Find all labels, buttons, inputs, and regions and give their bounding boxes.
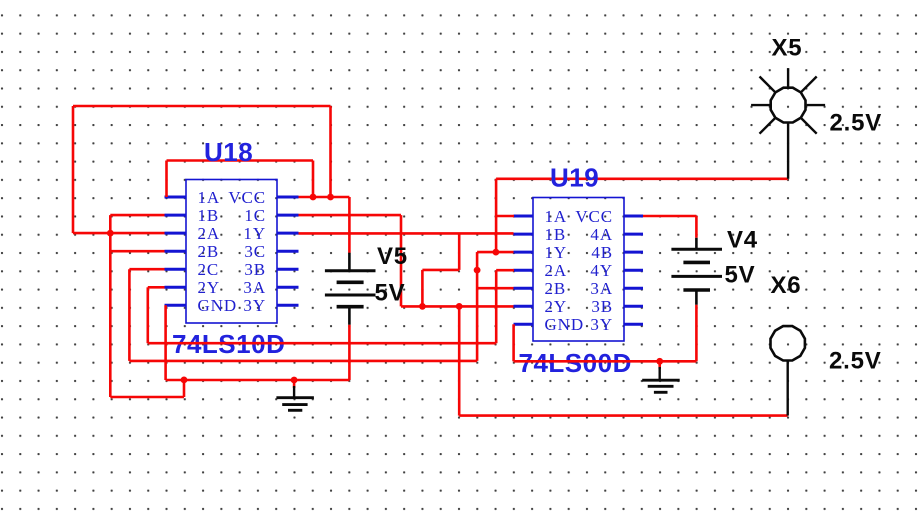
junction node 10 (656, 358, 663, 365)
U19 right pin stub row 6 (624, 305, 643, 308)
U19 right pin stub row 3 (624, 251, 643, 254)
op-amp U18 body (74LS10D IC box) (186, 180, 277, 324)
junction node 9 (291, 377, 298, 384)
junction node 2 (327, 194, 334, 201)
wire net y=361 U18 2C to U19 1Y (129, 360, 477, 363)
battery V4 top terminal (695, 238, 698, 249)
svg-text:2Y: 2Y (198, 278, 221, 297)
wire U19 pin 1A (496, 215, 514, 218)
wire U19 pin 2A (496, 269, 514, 272)
svg-text:1C: 1C (244, 206, 266, 225)
U19 left pin stub row 6 (514, 305, 534, 308)
wire 1C net vertical x=401 (400, 215, 403, 306)
wire drop to VCC node B (329, 106, 332, 197)
U18 right pin stub row 5 (277, 268, 299, 271)
battery V4 long plate 2 (671, 275, 722, 278)
wire ground 1 drop (293, 380, 296, 388)
U18 left pin stub row 2 (165, 214, 187, 217)
wire into U18 pin 2B (110, 250, 164, 253)
battery V5 long plate 2 (325, 294, 376, 297)
wire top long horizontal (73, 105, 331, 108)
wire net y=343 U18 2Y to U19 2A (148, 342, 496, 345)
wire jog vertical x=422 (421, 270, 424, 307)
lamp X6 lead wire (787, 361, 789, 416)
battery V5 short plate 1 (337, 280, 364, 284)
wire into U18 pin 1B (110, 214, 164, 217)
svg-text:2Y: 2Y (545, 297, 568, 316)
lamp X6 bulb circle (771, 326, 805, 360)
junction node 1 (310, 194, 317, 201)
U18 left pin stub row 3 (165, 232, 187, 235)
wire bottom-left horizontal y=397 (110, 396, 184, 399)
svg-text:GND: GND (545, 315, 585, 334)
svg-text:5V: 5V (375, 280, 406, 307)
wire U18 2Y drop (147, 287, 150, 343)
wire ground bus y=380 (166, 379, 350, 382)
U19 right pin stub row 7 (624, 323, 643, 326)
svg-text:2B: 2B (198, 242, 220, 261)
op-amp U19 body (74LS00D IC box) (533, 198, 624, 342)
svg-text:3B: 3B (244, 260, 266, 279)
svg-text:1Y: 1Y (545, 243, 568, 262)
svg-text:2A: 2A (545, 261, 568, 280)
svg-text:1A: 1A (198, 188, 221, 207)
U18 right pin stub row 2 (277, 214, 299, 217)
U19 right pin stub row 2 (624, 233, 643, 236)
U18 left pin stub row 4 (165, 250, 187, 253)
U19 right pin stub row 5 (624, 287, 643, 290)
ground symbol below U19 (642, 367, 680, 392)
U19 left pin stub row 3 (514, 251, 534, 254)
wire into U18 pin 2A (73, 232, 165, 235)
junction node 4 (493, 249, 500, 256)
U19 left pin stub row 7 (514, 323, 534, 326)
wire drop to lamp X6 net (458, 306, 461, 415)
wire U18 GND drop (164, 305, 167, 380)
battery V5 long plate 1 (325, 269, 376, 272)
junction node 5 (474, 267, 481, 274)
svg-text:U19: U19 (550, 163, 599, 193)
battery V4 bottom terminal (695, 290, 698, 305)
wire U19 ground bus y=361 (514, 360, 697, 363)
U18 right pin stub row 3 (277, 232, 299, 235)
lamp X5 lead wire (787, 123, 789, 179)
svg-text:X5: X5 (772, 35, 803, 62)
svg-text:3B: 3B (591, 297, 613, 316)
battery V5 short plate 2 (337, 305, 364, 309)
wire top-left vertical (72, 106, 75, 233)
U18 right pin stub row 1 (277, 196, 299, 199)
svg-text:2.5V: 2.5V (830, 110, 883, 137)
svg-text:2A: 2A (198, 224, 221, 243)
battery V5 top terminal (348, 253, 351, 271)
wire left bus vertical x=110 (109, 215, 112, 397)
U18 right pin stub row 7 (277, 304, 299, 307)
wire U19 pin 2B (477, 287, 513, 290)
wire riser to ground bus (183, 380, 186, 397)
wire over U18 label y=160 (167, 159, 314, 162)
junction node 3 (107, 230, 114, 237)
U18 right pin stub row 4 (277, 250, 299, 253)
wire ground 2 drop (658, 361, 661, 369)
svg-text:74LS00D: 74LS00D (519, 348, 632, 378)
battery V4 short plate 2 (683, 288, 710, 292)
svg-text:V4: V4 (727, 226, 758, 253)
U19 right pin stub row 4 (624, 269, 643, 272)
wire V4 plus lead (695, 216, 698, 238)
svg-text:2B: 2B (545, 279, 567, 298)
svg-text:1B: 1B (545, 225, 567, 244)
svg-text:5V: 5V (725, 262, 756, 289)
wire U19 1A riser x=496 (495, 179, 498, 252)
svg-text:1Y: 1Y (243, 224, 266, 243)
wire U18 2C drop (128, 269, 131, 361)
wire into U18 pin 2Y (148, 286, 165, 289)
ground symbol below U18 (276, 386, 314, 410)
svg-text:2.5V: 2.5V (829, 348, 882, 375)
lamp X5 bulb circle (771, 88, 806, 123)
wire bottom to lamp X6 (459, 414, 788, 417)
svg-text:VCC: VCC (228, 188, 266, 207)
wire jog horizontal y=270 (422, 269, 459, 272)
svg-text:3C: 3C (244, 242, 266, 261)
svg-text:GND: GND (198, 296, 238, 315)
svg-text:V5: V5 (377, 243, 408, 270)
wire net y=306 to U19 2Y (401, 305, 514, 308)
U18 left pin stub row 6 (165, 286, 187, 289)
U18 left pin stub row 5 (165, 268, 187, 271)
U19 left pin stub row 2 (514, 233, 534, 236)
wire top to lamp X5 (496, 178, 788, 181)
battery V4 long plate 1 (671, 248, 722, 251)
junction node 6 (419, 303, 426, 310)
wire U19 2A drop (495, 270, 498, 343)
svg-text:3A: 3A (243, 278, 266, 297)
lamp X5 rays (751, 68, 825, 134)
wire U19 VCC row (643, 215, 696, 218)
U19 left pin stub row 5 (514, 287, 534, 290)
svg-text:4A: 4A (590, 225, 613, 244)
wire U18 1Y to U19 1B (299, 232, 514, 235)
U18 left pin stub row 1 (165, 196, 187, 199)
wire jog vertical x=459 (458, 233, 461, 270)
junction node 8 (181, 377, 188, 384)
svg-text:X6: X6 (771, 272, 802, 299)
wire V4 minus lead (695, 305, 698, 362)
wire U18 1A riser (165, 161, 168, 198)
svg-text:1B: 1B (198, 206, 220, 225)
battery V4 short plate 1 (683, 261, 710, 265)
wire V5 plus lead (348, 197, 351, 253)
svg-text:3Y: 3Y (590, 315, 613, 334)
svg-text:1A: 1A (545, 207, 568, 226)
svg-text:VCC: VCC (575, 207, 613, 226)
U19 left pin stub row 1 (514, 215, 534, 218)
svg-text:U18: U18 (204, 137, 253, 167)
wire U19 1Y row (477, 251, 513, 254)
svg-text:3A: 3A (590, 279, 613, 298)
wire drop to VCC node A (312, 161, 315, 198)
U19 left pin stub row 4 (514, 269, 534, 272)
U18 left pin stub row 7 (165, 304, 187, 307)
battery V5 bottom terminal (348, 307, 351, 325)
wire into U18 pin 2C (129, 268, 164, 271)
svg-text:4Y: 4Y (590, 261, 613, 280)
U19 right pin stub row 1 (624, 215, 643, 218)
wire V5 minus lead (348, 325, 351, 380)
svg-text:4B: 4B (591, 243, 613, 262)
svg-text:3Y: 3Y (243, 296, 266, 315)
wire 1Y net vertical x=477 (476, 252, 479, 361)
wire U18 1C row (299, 214, 402, 217)
junction node 7 (456, 303, 463, 310)
U18 right pin stub row 6 (277, 286, 299, 289)
svg-text:2C: 2C (198, 260, 220, 279)
wire U18 VCC row (299, 196, 350, 199)
wire U19 GND drop (512, 324, 515, 361)
